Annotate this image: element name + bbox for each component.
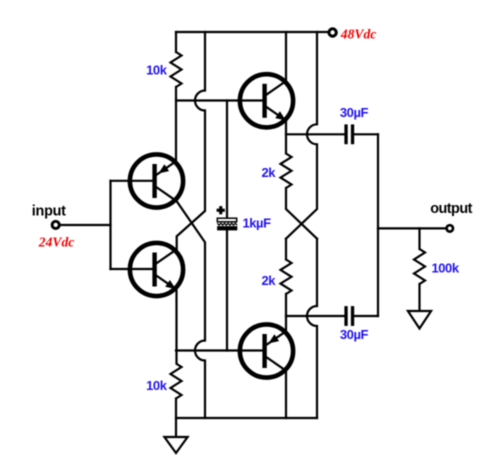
svg-text:24Vdc: 24Vdc xyxy=(38,235,75,250)
svg-text:48Vdc: 48Vdc xyxy=(340,27,377,42)
svg-text:2k: 2k xyxy=(261,165,276,180)
svg-text:output: output xyxy=(430,201,472,217)
svg-text:10k: 10k xyxy=(146,378,168,393)
svg-text:2k: 2k xyxy=(261,273,276,288)
svg-text:30µF: 30µF xyxy=(340,327,369,342)
svg-text:10k: 10k xyxy=(146,62,168,77)
svg-text:1kµF: 1kµF xyxy=(243,215,272,230)
svg-text:100k: 100k xyxy=(432,261,460,276)
svg-text:input: input xyxy=(32,203,66,219)
svg-text:30µF: 30µF xyxy=(340,105,369,120)
